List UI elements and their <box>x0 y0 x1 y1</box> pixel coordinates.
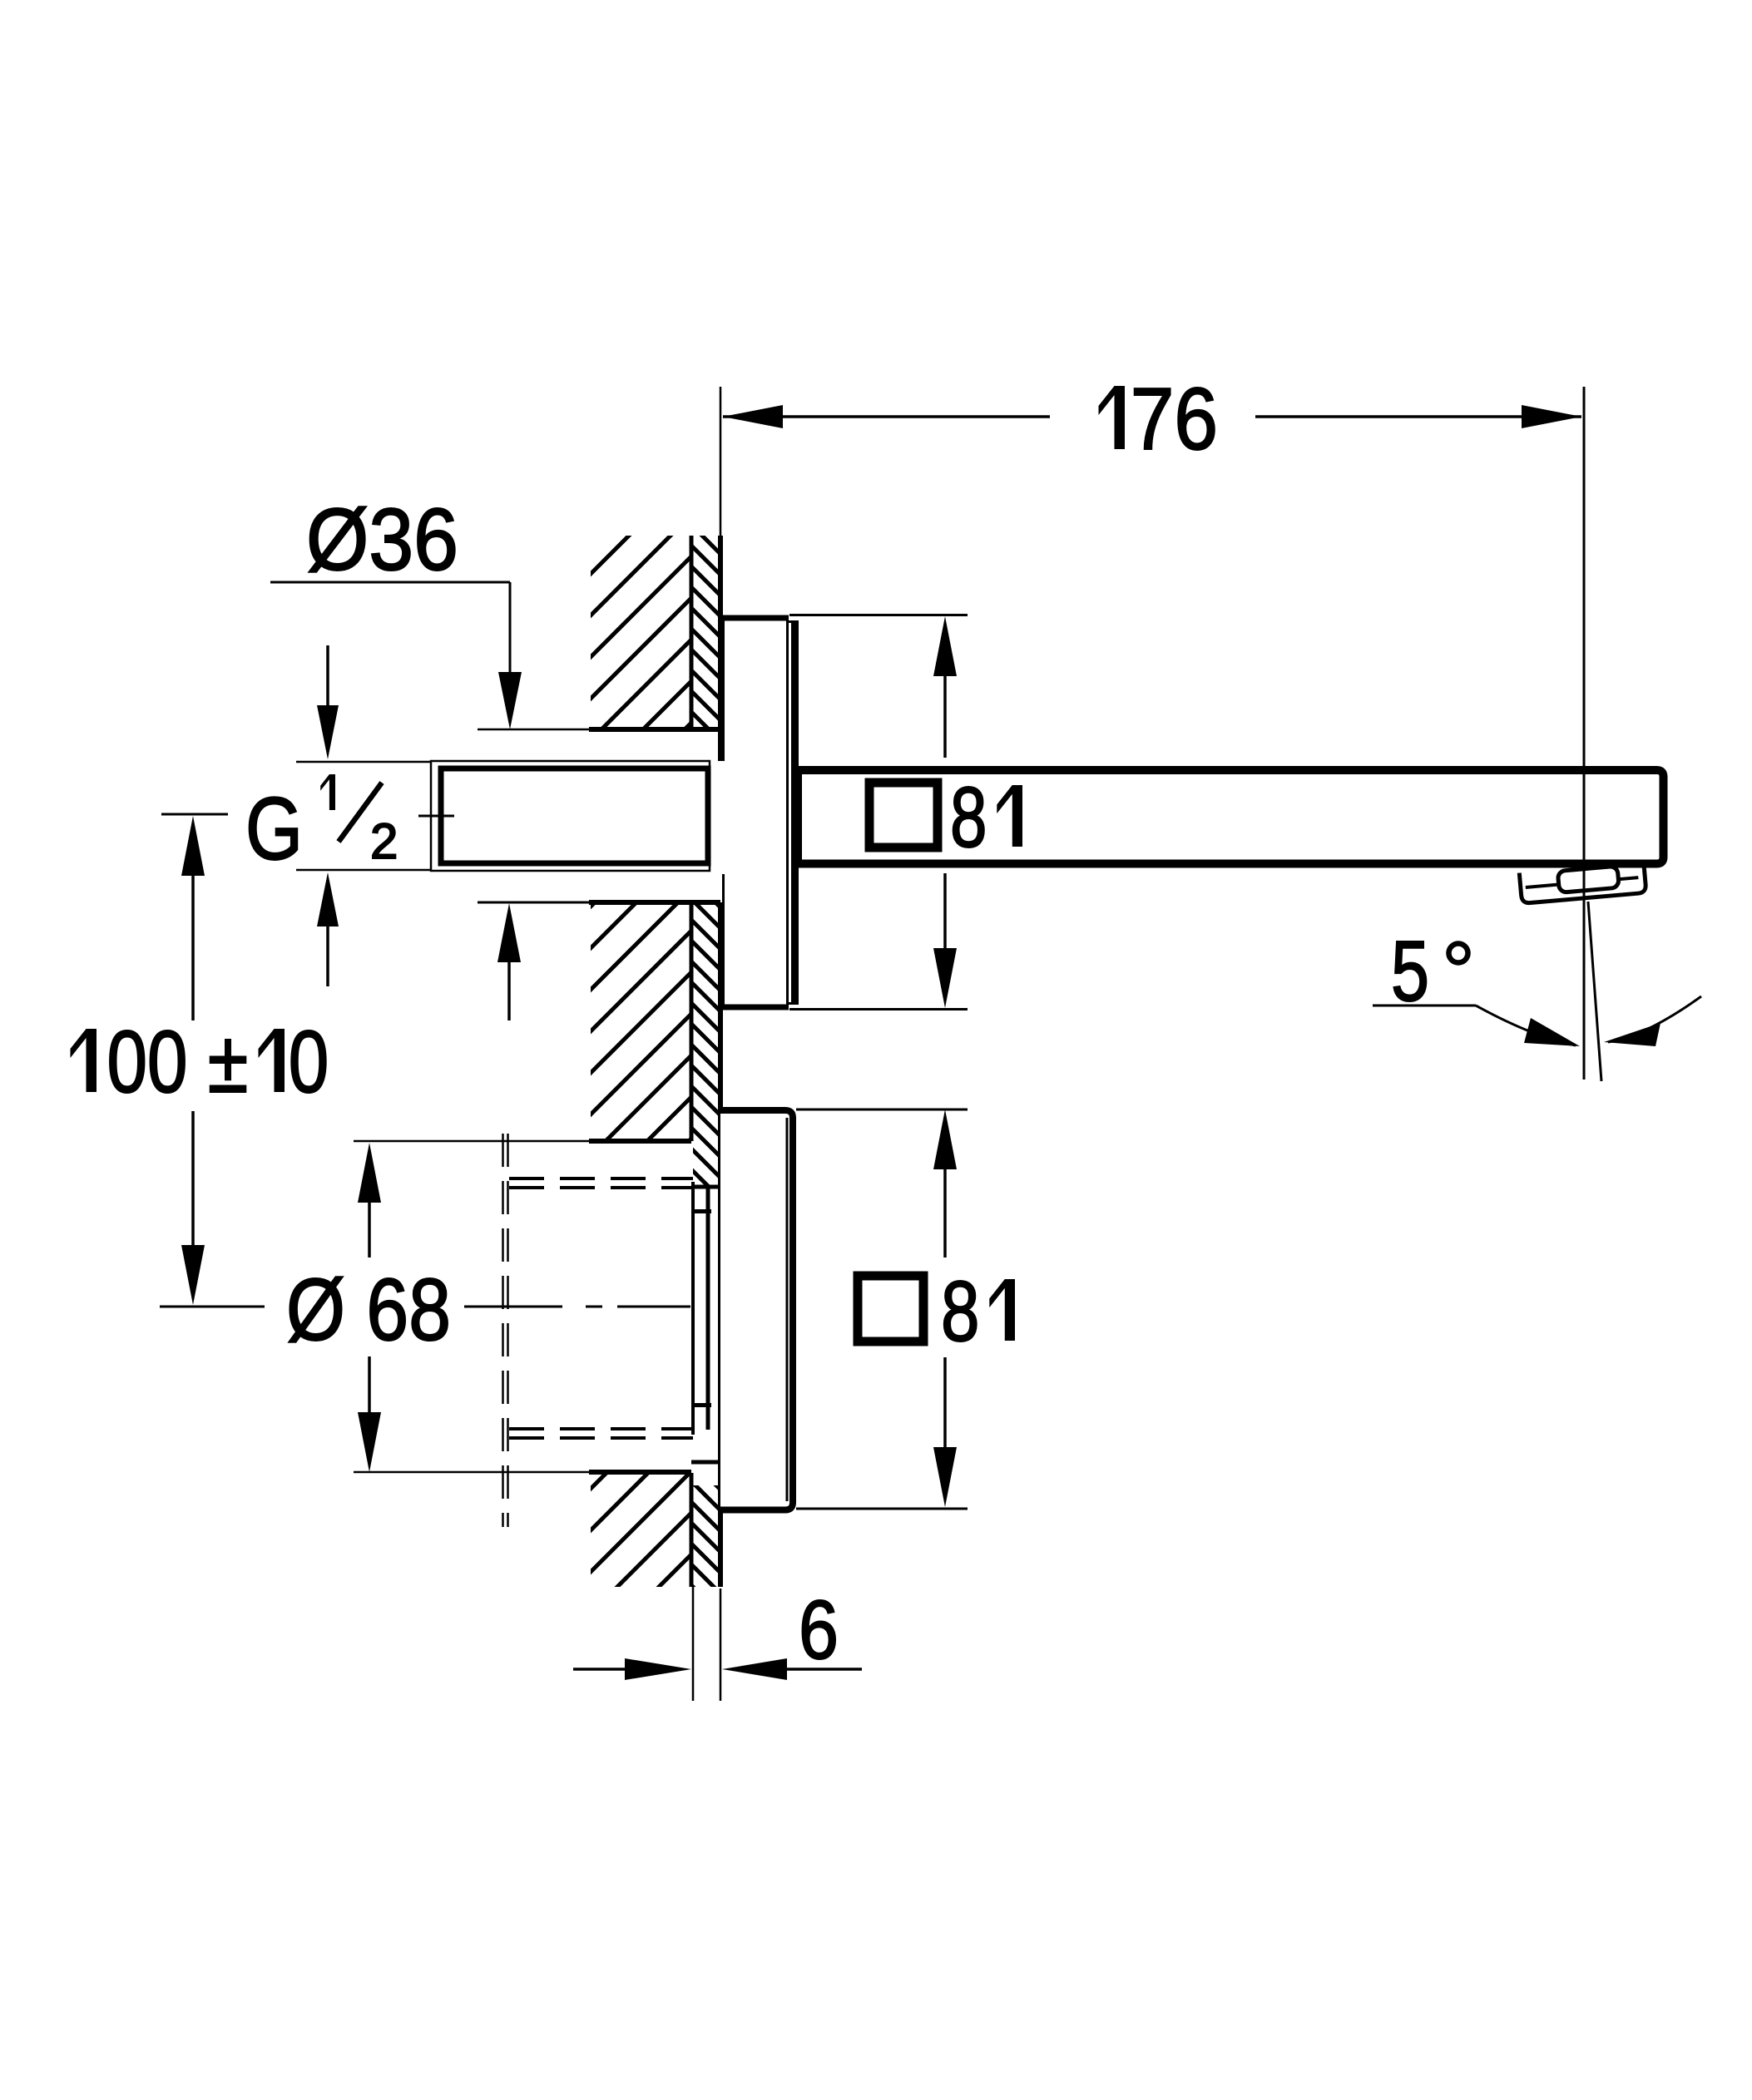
O68 arrow down <box>358 1412 381 1472</box>
pipe dim arrow up <box>317 872 339 926</box>
mousseur (aerator) tilted 5 deg <box>1519 862 1646 903</box>
fraction slash <box>339 783 382 842</box>
sensor hole top edge extension <box>354 1140 589 1143</box>
wall finish/rough boundary upper <box>690 536 694 729</box>
5deg right arc <box>1608 996 1701 1042</box>
sensor hole top edge <box>589 1139 691 1144</box>
dim 100 digit1 <box>71 1029 97 1092</box>
escutcheon plate left edge upper <box>722 615 725 761</box>
finish layer hole bottom edge <box>691 1460 720 1465</box>
sensor centerline seg2 <box>586 1306 602 1308</box>
svg-text:5: 5 <box>1391 923 1429 1019</box>
square symbol lower <box>858 1276 923 1342</box>
dim 100 bottom extension <box>160 1306 265 1308</box>
wall rough hatching <box>0 416 1752 1663</box>
dim 176 line right segment <box>1255 415 1581 418</box>
sq81 upper shaft top <box>943 676 947 758</box>
svg-text:Ø 68: Ø 68 <box>286 1261 451 1359</box>
dim 100 shaft upper <box>191 876 195 1020</box>
dim text 176 digit 1 <box>1099 386 1126 449</box>
O36 arrow up <box>497 903 521 962</box>
svg-text:8: 8 <box>950 769 987 865</box>
housing front dashed line a <box>502 1134 504 1527</box>
sq81 lower shaft bottom <box>943 1357 947 1447</box>
svg-text:G: G <box>245 778 303 878</box>
sq81 lower shaft top <box>943 1169 947 1258</box>
escutcheon plate top edge <box>720 615 789 621</box>
dim 100 top extension <box>161 813 228 816</box>
pipe hole bottom edge <box>589 900 720 905</box>
dim 6 right shaft <box>787 1668 862 1671</box>
pipe hole top edge <box>589 727 720 732</box>
spout base front face <box>791 620 799 1005</box>
sensor hole bottom edge <box>589 1470 691 1475</box>
housing top dashed outer <box>509 1177 693 1180</box>
dim 6 left extension <box>692 1587 695 1701</box>
spout base top cap <box>789 620 799 623</box>
O36 leader horizontal <box>270 581 510 584</box>
spout base bottom cap <box>789 1002 799 1005</box>
5deg left arc arrow <box>1524 1018 1580 1046</box>
pipe bottom extension line <box>296 869 431 872</box>
escutcheon plate bottom edge <box>720 1005 789 1010</box>
wall finish layer hatching <box>0 416 1752 1830</box>
dim 6 arrow right-pointing <box>625 1658 691 1680</box>
dim 176 left extension line <box>720 387 722 536</box>
O36 lower arrow shaft <box>507 962 511 1020</box>
sq81 lower arrow up <box>933 1109 957 1169</box>
pipe hole top edge extension <box>478 729 589 731</box>
sensor escutcheon box <box>720 1110 793 1510</box>
wall finish/rough boundary lower <box>690 1473 694 1587</box>
dim 6 arrow left-pointing <box>722 1658 787 1680</box>
sq81 upper arrow up <box>933 616 957 676</box>
pipe hole bottom edge extension <box>478 902 589 904</box>
square symbol upper <box>869 783 938 847</box>
sensor centerline seg1 <box>464 1306 562 1308</box>
svg-text:0: 0 <box>289 1013 329 1111</box>
dim 176 line left segment <box>723 415 1050 418</box>
housing end face <box>691 1182 695 1435</box>
O36 arrow down <box>498 672 522 729</box>
sq81 lower arrow down <box>933 1447 957 1507</box>
dim text 1 lower <box>989 1279 1015 1341</box>
sq81 upper bottom extension <box>789 1008 968 1010</box>
pipe dim upper arrow shaft <box>326 645 329 705</box>
sq81 upper shaft bottom <box>943 873 947 948</box>
5deg slanted line <box>1588 902 1601 1081</box>
svg-text:6: 6 <box>799 1584 839 1677</box>
housing clamp outer edge <box>706 1187 710 1430</box>
dim 176 left arrow <box>723 405 783 428</box>
label fraction 1 <box>320 774 335 810</box>
O68 shaft upper <box>368 1203 371 1258</box>
svg-text:2: 2 <box>370 813 398 869</box>
G1/2 connection pipe thread body <box>441 768 708 863</box>
housing bottom dashed outer <box>509 1436 693 1440</box>
5deg left arc <box>1476 1006 1576 1045</box>
dim 100 arrow down <box>181 1245 205 1305</box>
escutcheon plate right edge <box>786 615 789 1010</box>
spout bar <box>798 770 1664 864</box>
wall finish/rough boundary middle <box>690 902 694 1141</box>
sq81 lower top extension <box>796 1109 968 1111</box>
dim 100 arrow up <box>181 816 205 876</box>
sensor box seam line <box>786 1118 789 1501</box>
dim text 1 upper <box>997 785 1022 847</box>
housing front dashed line b <box>507 1134 509 1527</box>
dim 176 right extension / 5deg reference line <box>1583 387 1586 1080</box>
dim 6 left shaft <box>573 1668 625 1671</box>
housing bottom dashed inner <box>509 1427 693 1430</box>
svg-text:8: 8 <box>941 1263 980 1359</box>
svg-text:76: 76 <box>1131 370 1218 468</box>
wall face lower segment <box>718 902 723 1587</box>
O68 shaft lower <box>368 1356 371 1412</box>
escutcheon plate left edge lower <box>722 874 725 1010</box>
svg-text:Ø36: Ø36 <box>306 491 458 589</box>
housing clamp bottom cap <box>691 1403 711 1407</box>
5deg leader underline <box>1373 1005 1476 1007</box>
sq81 upper arrow down <box>933 948 957 1008</box>
pipe dim lower arrow shaft <box>326 926 329 986</box>
sq81 upper top extension <box>789 614 968 616</box>
dim 100 shaft lower <box>191 1111 195 1245</box>
dim 10 digit1 <box>259 1029 285 1092</box>
pipe dim arrow down <box>317 705 339 759</box>
O68 arrow up <box>358 1143 381 1203</box>
sensor centerline seg3 <box>617 1306 690 1308</box>
wall face upper segment <box>718 536 723 761</box>
svg-text:00: 00 <box>107 1013 188 1111</box>
pipe top extension line <box>296 761 431 763</box>
sq81 lower bottom extension <box>796 1508 968 1510</box>
G1/2 leader tick <box>418 815 454 818</box>
O36 leader vertical <box>509 582 512 672</box>
finish layer hole top edge <box>691 1185 720 1189</box>
dim 6 right extension <box>720 1589 722 1701</box>
sensor hole bottom edge extension <box>354 1471 589 1474</box>
svg-text:±: ± <box>208 1013 249 1111</box>
5deg right arc arrow <box>1604 1023 1660 1046</box>
G1/2 connection pipe outer outline <box>431 761 710 871</box>
housing clamp top cap <box>691 1209 711 1213</box>
dim 176 right arrow <box>1522 405 1581 428</box>
degree symbol <box>1449 944 1468 963</box>
housing top dashed inner <box>509 1186 693 1189</box>
